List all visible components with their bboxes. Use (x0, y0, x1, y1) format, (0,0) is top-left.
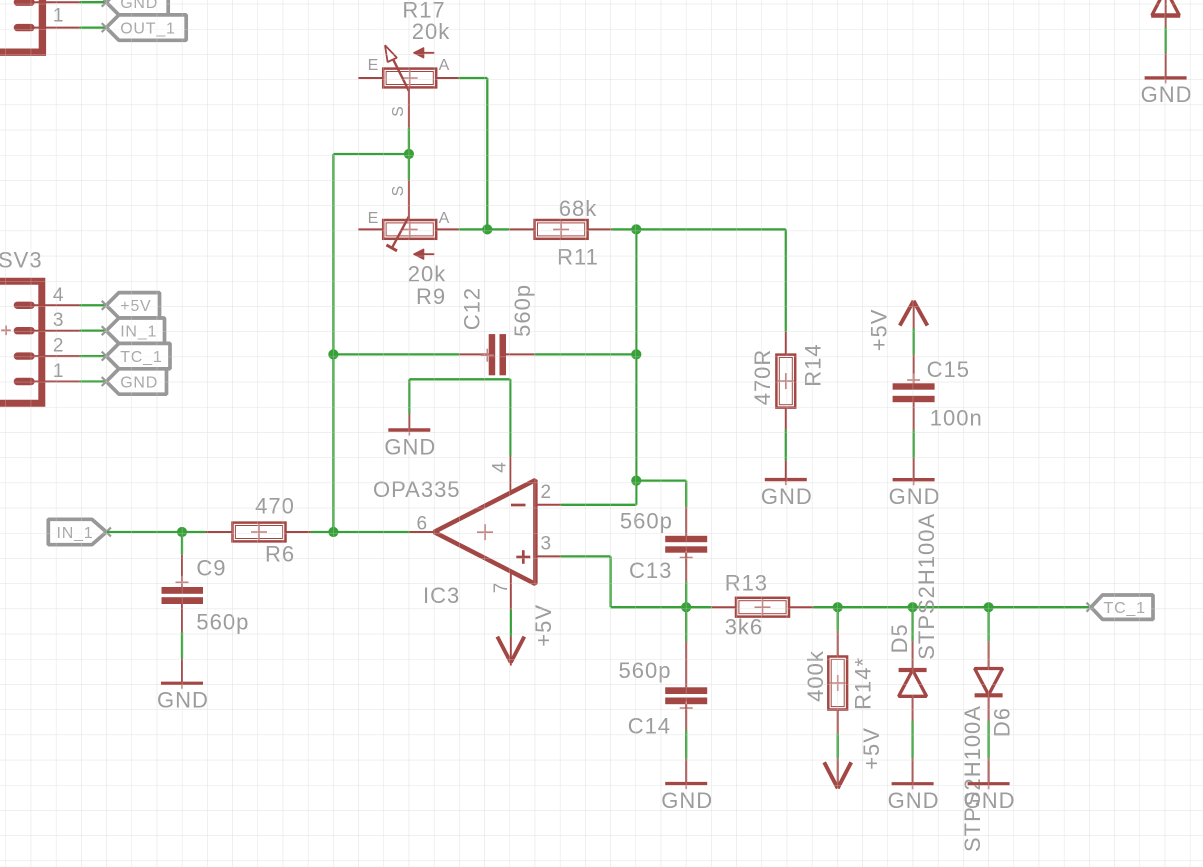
resistor R14 pin stub (785, 332, 787, 355)
diode D5 value STPS2H100A (914, 513, 939, 660)
resistor R14* body (828, 657, 847, 710)
trimmer R9 body (383, 220, 436, 239)
supply +5V label (859, 727, 884, 770)
connector SV? body (partial, top-left) (0, 0, 42, 52)
pin number 4 (489, 462, 510, 473)
op-amp IC3 pin 4 stub (509, 456, 511, 494)
junction (328, 527, 338, 537)
pin number 1 (53, 6, 64, 27)
connector pin pad (row 1, OUT_1) (14, 24, 80, 31)
net label IN_1 (flag pointing right) (48, 519, 111, 544)
wire (332, 154, 334, 532)
wire (80, 380, 107, 382)
resistor R6 body (233, 523, 286, 542)
wire (636, 479, 686, 481)
op-amp IC3 non-inverting input mark (516, 550, 530, 564)
connector SV3 origin cross (1, 326, 11, 336)
net label OUT_1 (102, 15, 187, 40)
wire (911, 607, 913, 641)
trimmer R17 body (383, 69, 436, 88)
trimmer R9 adjust arrow (413, 249, 434, 259)
resistor R6 value 470 (255, 494, 295, 519)
trimmer R17 wiper arrow (385, 45, 409, 91)
junction (404, 149, 414, 159)
pin number 7 (491, 583, 512, 594)
resistor R6 pin stub (206, 531, 233, 533)
op-amp IC3 inverting input mark (511, 504, 526, 507)
connector SV3 pin pad 3 (14, 327, 80, 334)
diode (top right, partial) (1151, 0, 1180, 27)
connector SV3 name (0, 248, 43, 273)
trimmer R17 value 20k (412, 19, 450, 44)
resistor R14* value 400k (803, 650, 828, 702)
trimmer R17 adjust arrow (413, 48, 434, 58)
wire (409, 378, 510, 380)
junction (328, 349, 338, 359)
trimmer R17 name (402, 0, 445, 23)
junction (833, 602, 843, 612)
capacitor C14 body (665, 642, 707, 731)
resistor R13 name (725, 571, 768, 596)
junction (681, 602, 691, 612)
supply +5V (down) (824, 758, 851, 788)
wire (611, 606, 687, 608)
resistor R14* pin stub (837, 710, 839, 734)
ground (888, 758, 940, 813)
wire (685, 481, 687, 508)
pin number 3 (541, 533, 552, 554)
trimmer R17 pin A stub (436, 77, 458, 79)
pin number 2 (53, 336, 64, 357)
capacitor C13 body (665, 507, 707, 581)
wire (561, 555, 611, 557)
connector SV3 pin pad 2 (14, 352, 80, 359)
pin number 4 (53, 285, 64, 306)
wire (333, 153, 409, 155)
ground (384, 414, 436, 459)
wire (534, 353, 636, 355)
supply +5V label (531, 604, 556, 647)
wire (333, 353, 459, 355)
diode D5 name (887, 623, 912, 653)
junction (984, 602, 994, 612)
wire (837, 734, 839, 759)
connector pin pad (GND row) (14, 0, 80, 6)
wire (106, 531, 206, 533)
wire (785, 229, 787, 331)
wire (612, 228, 637, 230)
resistor R14 pin stub (785, 408, 787, 430)
wire (408, 379, 410, 414)
pin number 3 (53, 310, 64, 331)
wire (635, 229, 637, 504)
resistor R6 name (265, 542, 295, 567)
net label GND (102, 369, 167, 394)
wire (609, 556, 611, 607)
trimmer R9 value 20k (408, 262, 446, 287)
supply +5V label (866, 309, 891, 352)
resistor R11 pin stub (588, 228, 612, 230)
trimmer R9 wiper arrow (386, 216, 409, 250)
resistor R11 pin stub (509, 228, 534, 230)
resistor R13 body (736, 598, 789, 617)
resistor R6 pin stub (286, 531, 311, 533)
wire (912, 430, 914, 458)
net label TC_1 (102, 343, 170, 368)
wire (561, 504, 636, 506)
trimmer R9 pin label A (439, 210, 450, 227)
capacitor C14 value 560p (619, 658, 672, 683)
pin number 2 (541, 482, 552, 503)
net label +5V (102, 293, 160, 318)
op-amp IC3 pin 2 stub (535, 504, 561, 506)
net label GND (top-left flag) (102, 0, 169, 15)
wire (80, 1, 107, 3)
resistor R13 value 3k6 (725, 615, 763, 640)
op-amp IC3 pin 3 stub (535, 555, 561, 557)
capacitor C15 body (893, 355, 935, 431)
pin number 6 (417, 514, 428, 535)
junction (631, 224, 641, 234)
diode D6 value STPS2H100A (960, 705, 985, 852)
wire (80, 304, 107, 306)
trimmer R9 pin E stub (358, 228, 383, 230)
wire (913, 606, 989, 608)
trimmer R17 pin label A (439, 57, 450, 74)
resistor R14 value 470R (750, 349, 775, 406)
resistor R11 name (557, 245, 599, 270)
wire (837, 607, 839, 631)
net label IN_1 (102, 318, 165, 343)
trimmer R9 pin A stub (436, 228, 458, 230)
capacitor C12 value 560p (510, 284, 535, 337)
wire (510, 610, 512, 637)
junction (177, 527, 187, 537)
wire (458, 228, 509, 230)
ground (157, 659, 209, 713)
trimmer R17 pin E stub (358, 77, 383, 79)
junction (908, 602, 918, 612)
resistor R11 value 68k (559, 196, 597, 221)
capacitor C12 body (460, 334, 535, 375)
wire (408, 128, 410, 180)
op-amp IC3 refdes (423, 583, 460, 608)
wire (813, 606, 837, 608)
resistor R14 body (776, 355, 795, 408)
supply +5V (down) (497, 636, 524, 665)
wire (181, 532, 183, 555)
capacitor C15 name (927, 357, 970, 382)
ground (889, 458, 941, 509)
op-amp IC3 pin 7 stub (510, 572, 512, 610)
resistor R14* pin stub (837, 631, 839, 657)
op-amp IC3 body (434, 480, 535, 584)
wire (80, 355, 107, 357)
wire (311, 531, 410, 533)
capacitor C9 body (162, 555, 204, 632)
capacitor C15 value 100n (930, 405, 983, 430)
wire (685, 581, 687, 607)
junction (631, 349, 641, 359)
diode D6 name (989, 707, 1014, 737)
wire (989, 606, 1091, 608)
diode D6 body (975, 641, 1003, 721)
resistor R14* name (850, 657, 875, 710)
pin number 1 (53, 361, 64, 382)
wire (686, 606, 711, 608)
ground (964, 758, 1016, 813)
net label TC_1 (1087, 595, 1154, 619)
trimmer R17 pin S stub (408, 87, 410, 127)
connector SV3 body (0, 281, 42, 403)
op-amp IC3 pin 6 stub (410, 531, 434, 533)
supply +5V (up) (900, 301, 928, 328)
ground (761, 461, 813, 509)
capacitor C9 value 560p (196, 610, 249, 635)
trimmer R9 name (416, 284, 446, 309)
wire (987, 607, 989, 641)
wire (486, 78, 488, 229)
resistor R11 body (535, 220, 588, 239)
trimmer R17 pin label S (390, 106, 407, 117)
wire (1164, 27, 1166, 53)
trimmer R9 pin label E (368, 210, 379, 227)
wire (685, 730, 687, 759)
wire (509, 379, 511, 456)
capacitor C13 name (629, 558, 672, 583)
capacitor C13 value 560p (620, 508, 673, 533)
connector SV3 pin pad 1 (14, 378, 80, 385)
resistor R14 name (801, 343, 826, 386)
wire (685, 607, 687, 641)
wire (911, 721, 913, 758)
ground (661, 759, 713, 813)
trimmer R9 pin label S (390, 186, 407, 197)
wire (458, 77, 487, 79)
op-amp IC3 name (373, 477, 461, 502)
wire (636, 228, 786, 230)
wire (785, 429, 787, 460)
capacitor C12 name (460, 287, 485, 330)
junction (482, 224, 492, 234)
wire (181, 632, 183, 659)
resistor R13 pin stub (789, 606, 813, 608)
wire (838, 606, 913, 608)
resistor R13 pin stub (712, 606, 736, 608)
junction (631, 476, 641, 486)
wire (80, 330, 107, 332)
trimmer R9 pin S stub (408, 180, 410, 221)
wire (80, 26, 107, 28)
capacitor C14 name (628, 714, 671, 739)
capacitor C9 name (196, 556, 226, 581)
diode D5 body (899, 641, 927, 721)
ground (1141, 53, 1193, 108)
connector SV3 pin pad 4 (14, 302, 80, 309)
wire (912, 328, 914, 355)
wire (987, 721, 989, 758)
trimmer R17 pin label E (368, 57, 379, 74)
